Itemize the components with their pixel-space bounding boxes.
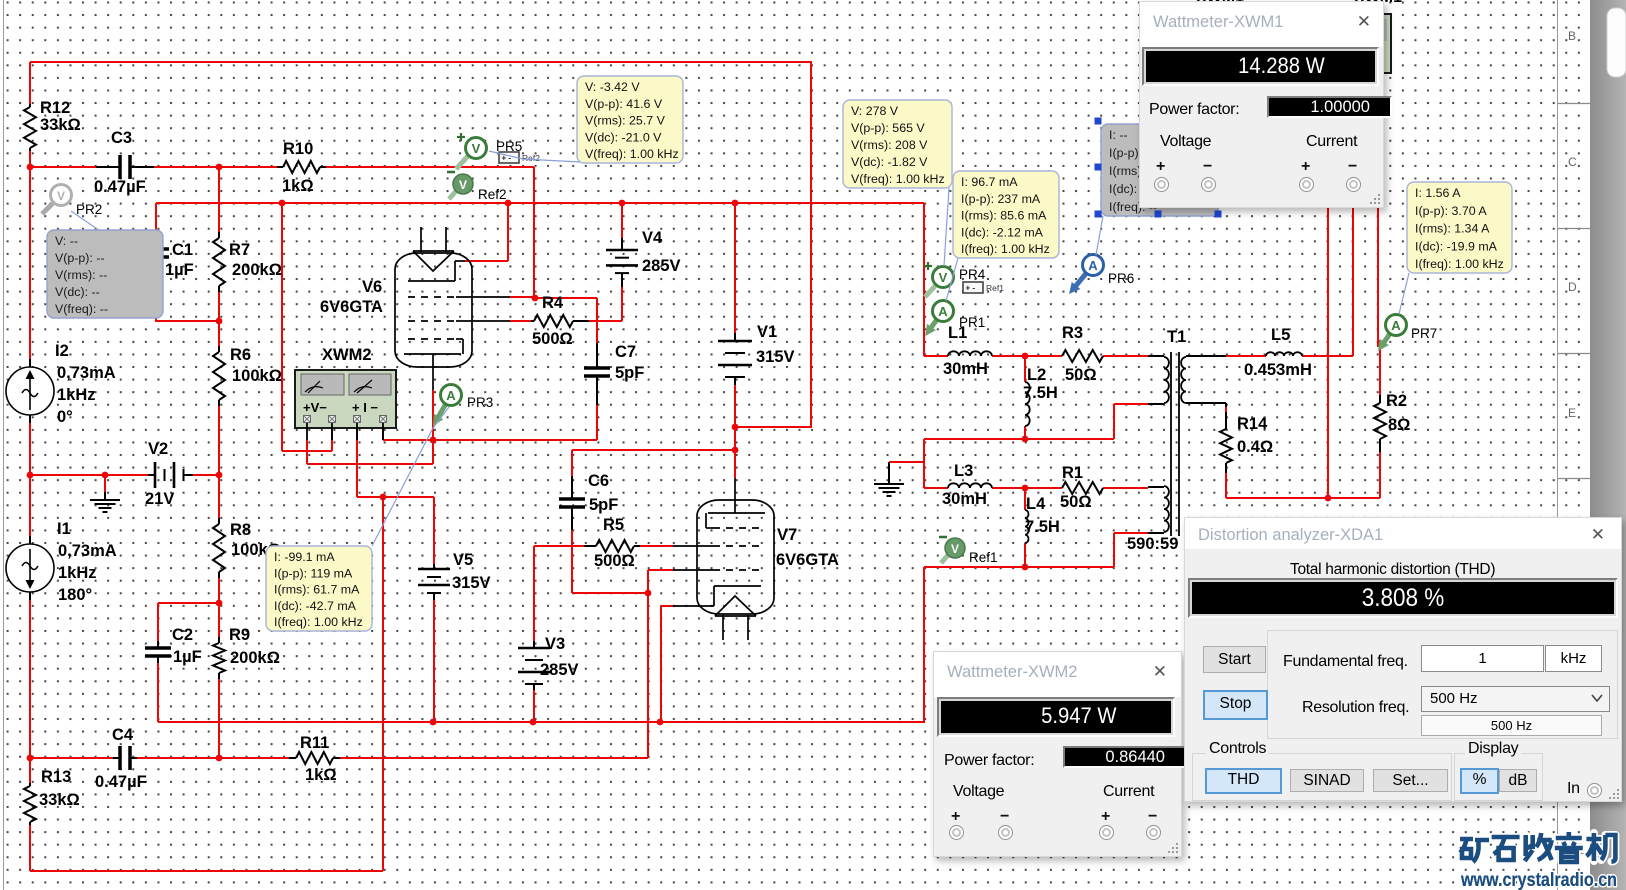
svg-text:R7: R7 <box>229 241 250 259</box>
svg-text:V(dc): -21.0 V: V(dc): -21.0 V <box>585 130 662 144</box>
svg-text:I(rms): 85.6 mA: I(rms): 85.6 mA <box>961 209 1047 223</box>
svg-text:PR4: PR4 <box>959 267 986 282</box>
svg-text:R5: R5 <box>603 516 624 534</box>
svg-text:285V: 285V <box>540 661 579 679</box>
svg-text:L2: L2 <box>1027 366 1046 384</box>
svg-text:C6: C6 <box>588 472 609 490</box>
svg-text:V: --: V: -- <box>55 234 78 248</box>
svg-text:V: V <box>939 270 948 285</box>
svg-text:C2: C2 <box>172 626 193 644</box>
svg-text:0.47µF: 0.47µF <box>95 773 147 791</box>
svg-text:50Ω: 50Ω <box>1060 493 1092 511</box>
svg-text:PR1: PR1 <box>959 315 985 330</box>
svg-text:I: --: I: -- <box>1109 128 1128 142</box>
svg-text:6V6GTA: 6V6GTA <box>320 298 383 316</box>
svg-text:A: A <box>1088 258 1098 273</box>
svg-text:V(rms): --: V(rms): -- <box>55 268 107 282</box>
svg-text:0.47µF: 0.47µF <box>94 178 146 196</box>
svg-text:33kΩ: 33kΩ <box>39 791 80 809</box>
svg-text:V4: V4 <box>642 229 663 247</box>
svg-text:C: C <box>1568 155 1577 169</box>
svg-text:V(dc): -1.82 V: V(dc): -1.82 V <box>851 155 928 169</box>
svg-text:0.453mH: 0.453mH <box>1244 361 1312 379</box>
svg-text:L3: L3 <box>954 462 973 480</box>
svg-text:1kΩ: 1kΩ <box>305 766 337 784</box>
svg-text:V(dc): --: V(dc): -- <box>55 285 100 299</box>
svg-text:1µF: 1µF <box>173 648 202 666</box>
svg-text:A: A <box>938 304 948 319</box>
svg-text:315V: 315V <box>452 574 491 592</box>
svg-text:B: B <box>1568 29 1576 43</box>
svg-text:V(p-p): 565 V: V(p-p): 565 V <box>851 121 925 135</box>
svg-text:V7: V7 <box>777 526 797 544</box>
svg-text:590:59: 590:59 <box>1127 535 1178 553</box>
svg-text:C3: C3 <box>111 129 132 147</box>
svg-text:E: E <box>1568 406 1576 420</box>
svg-text:315V: 315V <box>756 348 795 366</box>
svg-text:R2: R2 <box>1386 392 1407 410</box>
svg-text:8Ω: 8Ω <box>1388 416 1410 434</box>
svg-text:6V6GTA: 6V6GTA <box>776 551 839 569</box>
svg-text:T1: T1 <box>1167 328 1186 346</box>
svg-text:V: V <box>472 141 481 156</box>
svg-text:R10: R10 <box>283 140 313 158</box>
svg-text:C7: C7 <box>615 343 636 361</box>
svg-text:V: V <box>951 542 959 556</box>
svg-text:I(p-p): 237 mA: I(p-p): 237 mA <box>961 192 1041 206</box>
svg-text:I: 96.7 mA: I: 96.7 mA <box>961 175 1018 189</box>
svg-text:L4: L4 <box>1026 495 1046 513</box>
svg-text:XWM2: XWM2 <box>322 346 372 364</box>
svg-text:PR3: PR3 <box>467 395 493 410</box>
svg-text:+ I −: + I − <box>352 400 378 415</box>
svg-text:7.5H: 7.5H <box>1025 518 1060 536</box>
svg-text:21V: 21V <box>145 490 174 508</box>
svg-text:I(dc): -2.12 mA: I(dc): -2.12 mA <box>961 225 1044 239</box>
svg-text:V(p-p): --: V(p-p): -- <box>55 251 105 265</box>
svg-text:0°: 0° <box>57 408 73 426</box>
svg-text:1µF: 1µF <box>165 261 194 279</box>
svg-text:R9: R9 <box>229 626 250 644</box>
svg-text:I(rms): 61.7 mA: I(rms): 61.7 mA <box>274 583 360 597</box>
svg-text:A: A <box>1391 318 1401 333</box>
svg-text:V: V <box>459 178 467 192</box>
svg-text:30mH: 30mH <box>942 490 987 508</box>
svg-text:PR2: PR2 <box>76 202 102 217</box>
svg-text:100kΩ: 100kΩ <box>232 367 282 385</box>
svg-text:I(freq): 1.00 kHz: I(freq): 1.00 kHz <box>961 242 1050 256</box>
svg-text:L5: L5 <box>1271 326 1290 344</box>
svg-text:0,73mA: 0,73mA <box>58 542 117 560</box>
svg-text:R14: R14 <box>1237 415 1268 433</box>
svg-text:I: 1.56 A: I: 1.56 A <box>1415 186 1461 200</box>
svg-text:R11: R11 <box>300 734 329 752</box>
svg-text:500Ω: 500Ω <box>532 330 573 348</box>
svg-text:I(p-p): 3.70 A: I(p-p): 3.70 A <box>1415 204 1487 218</box>
svg-text:I(rms): 1.34 A: I(rms): 1.34 A <box>1415 222 1490 236</box>
svg-text:1kHz: 1kHz <box>57 386 96 404</box>
svg-text:R6: R6 <box>230 346 251 364</box>
svg-text:5pF: 5pF <box>615 364 644 382</box>
svg-text:1kΩ: 1kΩ <box>282 177 314 195</box>
svg-text:Ref1: Ref1 <box>969 550 998 565</box>
svg-text:V: 278 V: V: 278 V <box>851 104 899 118</box>
svg-text:V1: V1 <box>757 323 777 341</box>
svg-text:285V: 285V <box>642 257 681 275</box>
svg-text:V(rms): 25.7 V: V(rms): 25.7 V <box>585 114 666 128</box>
svg-text:0,73mA: 0,73mA <box>57 364 116 382</box>
svg-text:R3: R3 <box>1062 324 1083 342</box>
svg-text:V(rms): 208 V: V(rms): 208 V <box>851 138 928 152</box>
svg-text:V: V <box>57 189 65 203</box>
svg-text:V5: V5 <box>453 551 473 569</box>
svg-text:33kΩ: 33kΩ <box>40 116 81 134</box>
svg-text:I2: I2 <box>55 342 69 360</box>
svg-text:V6: V6 <box>362 278 382 296</box>
svg-text:0.4Ω: 0.4Ω <box>1237 438 1273 456</box>
svg-text:D: D <box>1568 280 1577 294</box>
svg-text:5pF: 5pF <box>589 496 618 514</box>
svg-text:R1: R1 <box>1062 464 1083 482</box>
svg-text:V2: V2 <box>148 440 168 458</box>
svg-text:I(freq): 1.00 kHz: I(freq): 1.00 kHz <box>274 615 363 629</box>
svg-text:PR6: PR6 <box>1108 271 1134 286</box>
svg-text:V(p-p): 41.6 V: V(p-p): 41.6 V <box>585 97 663 111</box>
svg-text:Ref2: Ref2 <box>522 153 540 163</box>
svg-text:I(dc): -19.9 mA: I(dc): -19.9 mA <box>1415 239 1498 253</box>
svg-text:www.crystalradio.cn: www.crystalradio.cn <box>1460 869 1617 890</box>
svg-text:C4: C4 <box>112 726 134 744</box>
svg-text:Ref1: Ref1 <box>986 283 1004 293</box>
svg-text:30mH: 30mH <box>943 360 988 378</box>
svg-text:R13: R13 <box>41 768 71 786</box>
svg-text:PR7: PR7 <box>1411 326 1437 341</box>
svg-text:R4: R4 <box>542 294 564 312</box>
svg-text:I(dc): -42.7 mA: I(dc): -42.7 mA <box>274 599 357 613</box>
svg-text:180°: 180° <box>58 586 92 604</box>
svg-text:+ -: + - <box>966 284 976 293</box>
svg-text:R12: R12 <box>40 99 70 117</box>
svg-text:R8: R8 <box>230 521 251 539</box>
svg-text:1kHz: 1kHz <box>58 564 97 582</box>
svg-text:A: A <box>446 388 456 403</box>
svg-text:I: -99.1 mA: I: -99.1 mA <box>274 550 335 564</box>
svg-text:V3: V3 <box>545 635 565 653</box>
svg-text:V(freq): 1.00 kHz: V(freq): 1.00 kHz <box>851 172 945 186</box>
svg-text:200kΩ: 200kΩ <box>230 649 280 667</box>
svg-text:I(freq): 1.00 kHz: I(freq): 1.00 kHz <box>1415 257 1504 271</box>
svg-text:+V−: +V− <box>303 400 327 415</box>
svg-text:I1: I1 <box>57 520 71 538</box>
svg-text:V(freq): --: V(freq): -- <box>55 302 108 316</box>
svg-text:7.5H: 7.5H <box>1023 384 1058 402</box>
svg-text:200kΩ: 200kΩ <box>232 261 282 279</box>
svg-text:500Ω: 500Ω <box>594 552 635 570</box>
svg-text:C1: C1 <box>172 241 193 259</box>
svg-text:Ref2: Ref2 <box>478 187 507 202</box>
svg-text:50Ω: 50Ω <box>1065 366 1097 384</box>
svg-text:I(p-p): 119 mA: I(p-p): 119 mA <box>274 566 353 580</box>
svg-text:V(freq): 1.00 kHz: V(freq): 1.00 kHz <box>585 147 679 161</box>
svg-text:V: -3.42 V: V: -3.42 V <box>585 80 640 94</box>
